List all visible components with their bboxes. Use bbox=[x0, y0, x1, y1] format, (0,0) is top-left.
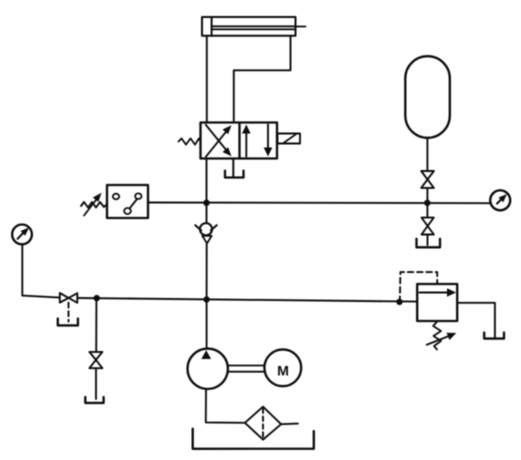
filter F1 bbox=[245, 407, 281, 440]
shutoff valve (accumulator drain) bbox=[422, 203, 434, 245]
node junction P-line / upper bus bbox=[203, 200, 209, 206]
tank (relief drain) bbox=[484, 333, 504, 339]
wire gauge drop + lower bus left bbox=[22, 244, 60, 297]
valve V1 crossed arrows (left position) bbox=[206, 125, 232, 157]
pump P1 bbox=[188, 349, 228, 389]
check valve CV1 bbox=[195, 203, 216, 300]
pressure gauge G1 (left) bbox=[12, 225, 32, 245]
wire bus to pump bbox=[206, 300, 208, 349]
pressure gauge G2 (right) bbox=[490, 190, 510, 210]
accumulator A1 bbox=[405, 56, 450, 138]
tank (valve drain) bbox=[225, 171, 244, 178]
node junction lower-left bbox=[94, 295, 100, 301]
valve V1 parallel arrows (right position) bbox=[242, 125, 272, 157]
node junction accumulator / upper bus bbox=[424, 200, 430, 206]
shutoff valve (accumulator isolation) bbox=[421, 171, 434, 188]
cylinder C1 bbox=[202, 17, 306, 36]
wire junction down to shutoff valve bbox=[95, 298, 97, 352]
wire cylinder B-port with jog bbox=[234, 36, 291, 123]
tank (lower left drain) bbox=[85, 397, 103, 403]
wire valve T-port bbox=[232, 159, 234, 177]
node junction pilot / lower bus bbox=[396, 299, 402, 305]
wire upper bus bbox=[148, 202, 491, 205]
motor M1 bbox=[264, 349, 301, 386]
wire lower bus bbox=[77, 298, 417, 302]
spring (pressure switch adjust) bbox=[81, 202, 107, 208]
shutoff valve (gauge line) bbox=[60, 293, 78, 303]
spring (relief valve adjust) bbox=[433, 321, 441, 350]
wire pump suction bbox=[206, 389, 245, 423]
wire valve P-port bbox=[206, 159, 208, 203]
coupling shaft bbox=[228, 366, 265, 372]
wire relief outlet bbox=[457, 303, 495, 338]
wire cylinder A-port bbox=[206, 36, 208, 123]
solenoid bbox=[278, 134, 301, 144]
relief valve RV1 body bbox=[417, 284, 457, 321]
spring (valve return) bbox=[179, 138, 201, 144]
pilot line (dashed) bbox=[400, 272, 437, 302]
dashed drain line bbox=[68, 303, 70, 322]
arrow (relief valve adjust) bbox=[427, 333, 457, 345]
arrow (pressure switch adjust) bbox=[84, 193, 102, 216]
tank (accumulator drain) bbox=[417, 239, 441, 248]
wire valve to bus bbox=[426, 188, 428, 203]
pressure switch PS1 bbox=[107, 185, 148, 218]
tank (gauge drain) bbox=[58, 319, 78, 326]
node junction pump line / lower bus bbox=[203, 296, 209, 302]
directional valve V1 body bbox=[201, 123, 278, 159]
wire accumulator drop bbox=[426, 138, 428, 171]
reservoir tank (main) bbox=[193, 429, 314, 449]
svg-text:M: M bbox=[277, 363, 289, 379]
shutoff valve (lower left) bbox=[89, 352, 102, 399]
wire filter to tank bbox=[281, 423, 298, 426]
